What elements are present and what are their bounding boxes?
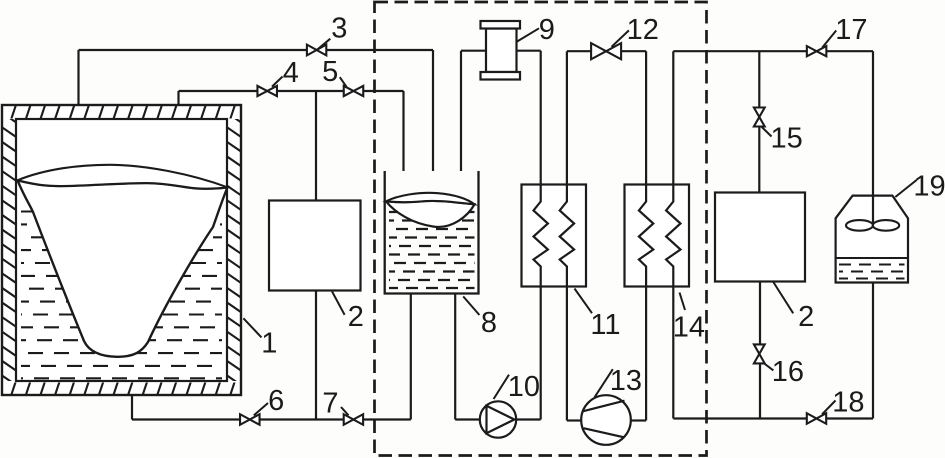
svg-text:14: 14 — [673, 312, 705, 344]
wire branch down to valve 15 — [758, 51, 760, 107]
heat exchanger 14 shell — [625, 185, 690, 287]
svg-text:12: 12 — [627, 14, 659, 46]
tank T1 wall hatching bottom band — [0, 379, 236, 397]
wire downcomer B into tank 8 — [402, 91, 404, 171]
wire tank1 top outlet A vertical — [77, 50, 79, 105]
svg-text:5: 5 — [322, 56, 338, 88]
pump 13 upper chord — [583, 401, 625, 412]
leader line to label 10 — [494, 375, 509, 399]
leader line to label 17 — [822, 31, 836, 48]
leader line to label 19 — [895, 180, 916, 197]
valve 16 — [754, 344, 765, 354]
leader line to label 15 — [762, 127, 772, 137]
wire tank 8 bottom right drain — [454, 294, 456, 420]
valve 15 — [754, 108, 765, 118]
svg-text:1: 1 — [261, 328, 277, 360]
tank T1 hatched-wall vessel — [2, 105, 241, 395]
leader line to label 2 right — [773, 282, 793, 313]
wire component 9 left pipe vertical — [460, 51, 462, 171]
leader line to label 2 left — [332, 291, 345, 314]
wire valve 5 right — [363, 90, 403, 92]
coil pipe HX11 right (to valve 12 / pump 13) — [560, 51, 574, 420]
wire bottom run HX14 to valve 18 — [673, 417, 807, 419]
valve 6 — [240, 414, 250, 425]
coil pipe HX14 left (from valve 12 / pump 13) — [639, 51, 653, 420]
wire valve 15 to box 2 right — [758, 127, 760, 193]
wire to valve 3 — [79, 49, 307, 51]
leader line to label 11 — [575, 289, 593, 314]
valve 7 — [344, 414, 354, 425]
tank 8 liquid dashes — [389, 212, 475, 288]
leader line to label 14 — [680, 293, 686, 311]
box 2 (left unit) — [269, 201, 361, 291]
coil pipe HX14 right (to valve 17 / valve 18 run) — [666, 51, 680, 418]
svg-text:15: 15 — [771, 122, 803, 154]
svg-text:2: 2 — [348, 301, 364, 333]
svg-text:3: 3 — [331, 13, 347, 45]
wire tank1 top outlet B vertical — [177, 91, 179, 105]
wire valve 16 to bottom run — [759, 363, 761, 418]
wire valve 17 to vessel 19 top — [826, 50, 873, 52]
tank T1 wall hatching top band — [0, 103, 236, 121]
svg-text:8: 8 — [481, 307, 497, 339]
wire branch down to box 2 left — [315, 91, 317, 201]
wire pump 13 outlet to HX14 left coil — [631, 419, 646, 421]
svg-text:2: 2 — [798, 301, 814, 333]
wire HX11 right coil to pump 13 inlet — [567, 419, 581, 421]
wire pump 10 outlet — [516, 418, 541, 420]
component 9 cylinder with flanges — [486, 29, 517, 73]
wire valve 4 to valve 5 — [277, 90, 344, 92]
leader line to label 4 — [272, 77, 283, 87]
wire to pump 10 inlet — [455, 418, 480, 420]
vessel 19 propeller blades — [846, 220, 873, 231]
valve 5 — [344, 86, 354, 96]
coil pipe HX11 left (from component 9 to pump 10) — [534, 51, 548, 420]
valve 17 — [807, 46, 817, 56]
pump 10 (circle with triangle) — [480, 401, 516, 437]
svg-text:10: 10 — [508, 371, 540, 403]
vessel 19 stirred tank outline — [836, 196, 908, 283]
valve 3 — [307, 45, 317, 56]
svg-text:6: 6 — [268, 385, 284, 417]
box 2 (right unit) — [715, 193, 805, 282]
dashed system boundary box — [375, 2, 707, 456]
leader line to label 13 — [595, 369, 613, 397]
leader line to label 16 — [763, 363, 774, 371]
pump 13 lower chord — [584, 428, 624, 437]
svg-text:9: 9 — [539, 14, 555, 46]
wire riser into tank 8 bottom left — [410, 294, 412, 420]
tank T1 wall hatching left band — [1, 112, 17, 386]
wire to valve 4 — [179, 90, 258, 92]
svg-text:7: 7 — [322, 387, 338, 419]
wire HX11 right coil to valve 12 — [567, 50, 591, 52]
leader line to label 7 — [341, 407, 349, 415]
leader line to label 9 — [517, 28, 540, 42]
wire tank1 bottom drain vertical — [131, 395, 133, 420]
svg-text:19: 19 — [913, 171, 945, 203]
leader line to label 5 — [340, 77, 347, 87]
tank T1 vortex funnel curve — [18, 180, 228, 357]
wire drain to valve 6 — [132, 418, 240, 420]
wire HX14 right coil to valve 17 — [673, 50, 807, 52]
wire valve 6 to valve 7 — [260, 418, 344, 420]
svg-text:16: 16 — [772, 356, 804, 388]
pump 13 (circle with fan chords) — [581, 395, 631, 445]
leader line to label 12 — [612, 30, 629, 46]
wire valve 12 to HX14 left coil — [621, 50, 646, 52]
leader line to label 8 — [463, 296, 479, 315]
leader line to label 1 — [243, 318, 261, 337]
valve 12 (large) — [591, 43, 606, 59]
wire component 9 right pipe horizontal — [517, 50, 541, 52]
svg-text:18: 18 — [832, 387, 864, 419]
valve 18 — [807, 413, 817, 424]
svg-text:4: 4 — [283, 57, 299, 89]
wire box 2 left drain — [315, 291, 317, 420]
wire component 9 left pipe horizontal — [461, 50, 486, 52]
wire box 2 right drain to valve 16 — [759, 282, 761, 345]
svg-text:11: 11 — [590, 309, 620, 341]
wire valve 7 right — [363, 418, 411, 420]
tank T1 liquid surface lens — [18, 165, 228, 189]
wire vessel 19 stirrer shaft — [872, 51, 874, 225]
tank 8 liquid surface bowl curve — [386, 201, 475, 227]
vessel 19 stirrer shaft inside — [872, 196, 874, 225]
wire vessel 19 bottom pipe — [872, 283, 874, 419]
tank T1 liquid level dashes — [21, 212, 222, 379]
wire valve 18 to vessel 19 drain — [826, 417, 873, 419]
leader line to label 6 — [254, 403, 268, 415]
leader line to label 18 — [822, 401, 836, 415]
vessel 19 liquid section line — [836, 257, 908, 259]
vessel 19 liquid dashes — [839, 264, 905, 266]
valve 4 — [257, 86, 267, 96]
tank T1 wall hatching right band — [226, 112, 242, 386]
tank 8 open vessel walls — [385, 171, 479, 294]
wire valve 3 to downcomer — [326, 49, 433, 51]
svg-text:17: 17 — [835, 14, 867, 46]
svg-text:13: 13 — [610, 365, 642, 397]
tank 8 liquid surface lens — [386, 193, 475, 204]
leader line to label 3 — [317, 39, 330, 50]
wire downcomer into tank 8 — [432, 50, 434, 171]
heat exchanger 11 shell — [522, 185, 587, 287]
